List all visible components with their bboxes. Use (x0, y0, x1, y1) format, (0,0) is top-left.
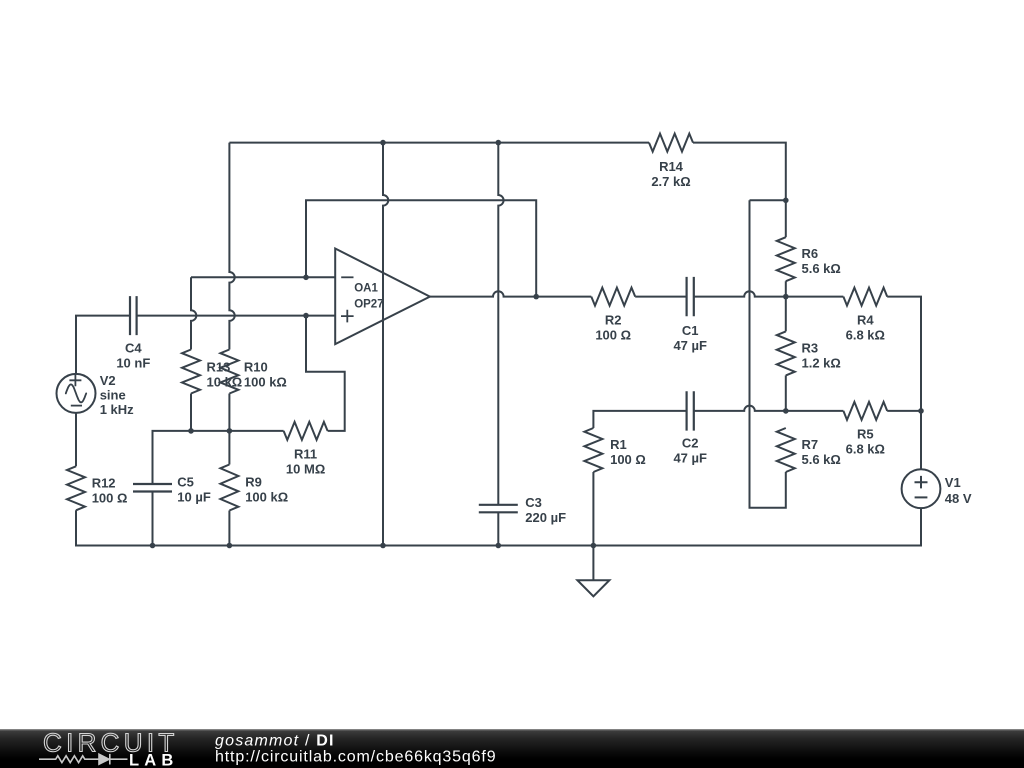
wire minus input from R13 top corner to op-amp (191, 276, 335, 278)
junction ground node (591, 543, 597, 549)
wire R7 branch vertical down to U-turn under R7 (750, 200, 786, 508)
svg-text:V2: V2 (100, 373, 116, 388)
wire V1 top lead (920, 411, 922, 469)
svg-text:47 µF: 47 µF (673, 338, 707, 353)
wire R6 branch: from R14 node down through R6 (785, 200, 787, 237)
svg-text:R11: R11 (294, 446, 317, 461)
svg-text:R2: R2 (605, 313, 622, 328)
svg-text:10 µF: 10 µF (177, 490, 211, 505)
wire R13 bottom lead (190, 394, 192, 431)
resistor R10 (220, 350, 238, 394)
svg-text:5.6 kΩ: 5.6 kΩ (802, 452, 841, 467)
junction R6 top node (783, 198, 789, 204)
resistor R7 (777, 428, 795, 472)
wire R13 top lead hop over plus wire (191, 277, 196, 349)
junction C5 bottom rail (150, 543, 156, 549)
ground symbol (577, 546, 609, 597)
svg-text:5.6 kΩ: 5.6 kΩ (802, 261, 841, 276)
op-amp OA1 (335, 249, 430, 345)
svg-text:R13: R13 (207, 360, 231, 375)
capacitor C4 (130, 296, 137, 335)
svg-text:R4: R4 (857, 313, 874, 328)
junction output feedback (533, 294, 539, 300)
wire C5 bottom to bottom rail (152, 492, 154, 546)
wire lower row: R1 corner, C2, hop, to R5 node (593, 411, 686, 428)
wire R10 bottom lead (228, 394, 230, 431)
wire plus node down and over to R11 right lead (306, 316, 345, 431)
resistor R2 (591, 288, 635, 306)
wire R6 bottom lead (785, 281, 787, 296)
wire R3: from output node down (785, 297, 787, 332)
svg-text:V1: V1 (945, 475, 961, 490)
svg-text:R10: R10 (244, 360, 268, 375)
wire R9 bottom lead (228, 511, 230, 546)
junction R7 top node (783, 408, 789, 414)
wire C1 right with hop over R7 branch vertical, to R6/R3 node (694, 291, 786, 296)
svg-text:1 kHz: 1 kHz (100, 402, 134, 417)
svg-text:100 kΩ: 100 kΩ (245, 490, 288, 505)
svg-text:100 Ω: 100 Ω (610, 452, 646, 467)
svg-text:C2: C2 (682, 436, 699, 451)
wire R7 node to R5 (786, 410, 844, 412)
wire R6/R3 node to R4 (786, 296, 844, 298)
resistor R11 (284, 422, 328, 440)
junction C3 bottom rail (496, 543, 502, 549)
svg-text:LAB: LAB (129, 752, 179, 768)
svg-text:R12: R12 (92, 475, 116, 490)
junction R5/V1 node (918, 408, 924, 414)
resistor R6 (777, 237, 795, 281)
wire input net: V2 top through C4 to op-amp plus input (76, 316, 130, 374)
wire R14 right to corner down to R6 top node (693, 143, 786, 201)
svg-text:R6: R6 (802, 246, 819, 261)
junction minus input (303, 275, 309, 281)
svg-text:47 µF: 47 µF (673, 450, 707, 465)
svg-text:100 Ω: 100 Ω (595, 328, 631, 343)
svg-text:220 µF: 220 µF (525, 510, 566, 525)
wire bottom rail left part (153, 545, 594, 547)
wire C2 right with hop to R7 node (694, 406, 786, 411)
junction top wire at x=383 (380, 140, 386, 146)
capacitor C2 (687, 391, 694, 430)
svg-text:R1: R1 (610, 437, 627, 452)
svg-text:10 MΩ: 10 MΩ (286, 461, 325, 476)
junction R6/R3 output node (783, 294, 789, 300)
wire vertical from top-wire junction down through schematic to bottom rail (hop over feedback wire) (383, 143, 388, 546)
svg-text:1.2 kΩ: 1.2 kΩ (802, 355, 841, 370)
svg-text:6.8 kΩ: 6.8 kΩ (846, 328, 885, 343)
resistor R14 (649, 134, 693, 152)
svg-text:R3: R3 (802, 340, 819, 355)
resistor R4 (843, 288, 887, 306)
svg-text:C1: C1 (682, 323, 699, 338)
svg-text:OA1: OA1 (354, 283, 378, 295)
resistor R9 (220, 465, 238, 511)
resistor R5 (843, 402, 887, 420)
svg-text:C5: C5 (177, 475, 194, 490)
svg-text:100 Ω: 100 Ω (92, 490, 128, 505)
svg-text:sine: sine (100, 388, 126, 403)
wire R11 left to junctions and corner down to C5 (153, 431, 284, 484)
junction R10/R9 node (227, 428, 233, 434)
svg-text:R14: R14 (659, 159, 684, 174)
wire R1 bottom lead to bottom rail (592, 472, 594, 546)
voltage source V2 sine (57, 374, 96, 413)
junction x=383 bottom rail (380, 543, 386, 549)
svg-text:OP27: OP27 (354, 298, 383, 310)
wire op-amp output with hops over the two verticals, to R2 (430, 291, 591, 296)
wire V1 bottom to bottom rail corner (593, 508, 921, 545)
wire R9 from R11-wire junction to bottom rail (228, 431, 230, 465)
capacitor C1 (687, 277, 694, 316)
svg-text:C3: C3 (525, 495, 542, 510)
svg-text:48 V: 48 V (945, 491, 972, 506)
resistor R12 (67, 466, 85, 510)
wire R5 right to V1 node (887, 410, 921, 412)
wire R10 top lead from top wire with hops over minus and plus wires (229, 143, 234, 350)
resistor R3 (777, 331, 795, 375)
resistor R1 (584, 428, 602, 472)
wire C4 right to op-amp plus input (137, 315, 336, 317)
svg-text:http://circuitlab.com/cbe66kq3: http://circuitlab.com/cbe66kq35q6f9 (215, 749, 496, 766)
wire C3 bottom to bottom rail (497, 512, 499, 545)
junction top wire at x=498 (496, 140, 502, 146)
wire top net from corner to R14 with junctions (229, 142, 649, 144)
capacitor C3 (479, 505, 518, 513)
wire V2 bottom to R12 (75, 413, 77, 466)
wire R12 bottom corner to bottom rail (76, 510, 153, 545)
svg-text:C4: C4 (125, 340, 142, 355)
svg-text:2.7 kΩ: 2.7 kΩ (651, 174, 690, 189)
logo resistor-diode symbol (39, 756, 99, 763)
svg-text:100 kΩ: 100 kΩ (244, 375, 287, 390)
svg-text:6.8 kΩ: 6.8 kΩ (846, 441, 885, 456)
resistor R13 (182, 350, 200, 394)
svg-text:R9: R9 (245, 475, 262, 490)
svg-text:R5: R5 (857, 426, 874, 441)
wire vertical from top-wire junction down to C3 (hop over feedback wire) (498, 143, 503, 505)
capacitor C5 (133, 484, 172, 492)
svg-text:gosammot / DI: gosammot / DI (215, 733, 335, 750)
voltage source V1 (902, 469, 941, 508)
junction R13 bottom (188, 428, 194, 434)
wire R4 right corner down to R5 node (887, 297, 921, 411)
junction plus input (303, 313, 309, 319)
wire R3 bottom lead (785, 375, 787, 411)
wire feedback: output junction up and left to minus-input vertical (306, 200, 536, 296)
svg-text:10 nF: 10 nF (116, 355, 150, 370)
svg-text:R7: R7 (802, 437, 819, 452)
wire R2 right to C1 (635, 296, 686, 298)
wire horizontal connecting R7-branch vertical to R6 node (750, 199, 786, 201)
junction R9 bottom rail (227, 543, 233, 549)
